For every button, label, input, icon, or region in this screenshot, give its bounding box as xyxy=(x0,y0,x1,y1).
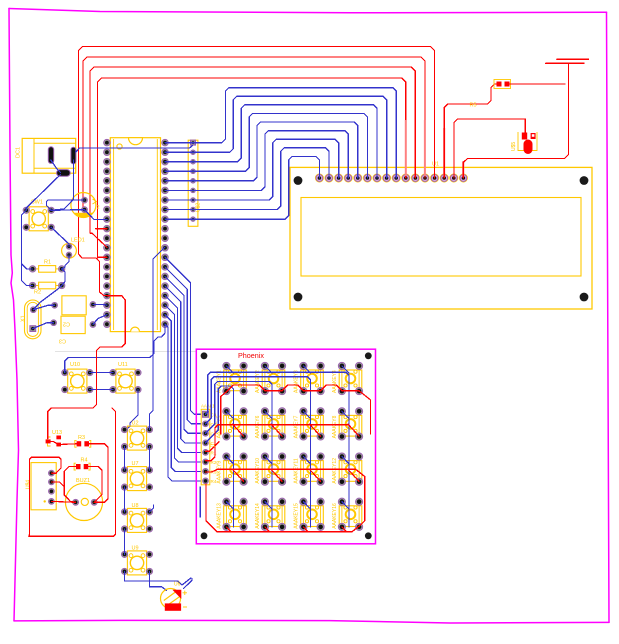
LCD mounting hole 3 xyxy=(294,293,303,302)
label U1 xyxy=(432,162,439,168)
keypad button AAAKEY2 xyxy=(255,362,286,394)
wire DC1 pin1 to pin3 xyxy=(51,160,61,173)
keypad connector pads C4-R4 xyxy=(201,404,217,485)
svg-text:U$2: U$2 xyxy=(196,203,202,212)
resistor R2 xyxy=(29,282,65,295)
resistor R4 (SMD) xyxy=(74,458,90,471)
keypad mounting hole 3 xyxy=(201,532,208,539)
keypad button AAAKEY16 xyxy=(332,498,363,530)
wire branch to R1 pad1 xyxy=(22,264,33,269)
keypad red row4 net xyxy=(206,484,361,532)
LCD mounting hole 1 xyxy=(294,176,303,185)
red wire R4 to BUZ1 pin1 xyxy=(64,467,76,503)
IC U13 (SOT-23) xyxy=(46,430,62,446)
component U$3 (TO-92) xyxy=(71,193,100,218)
push button SW1 xyxy=(23,200,54,231)
red wire R4 to BUZ1 pin2 xyxy=(88,467,102,503)
transistor U$5 xyxy=(511,132,537,154)
svg-text:AAAKEY8: AAAKEY8 xyxy=(332,415,338,438)
LED U6 xyxy=(161,582,188,611)
svg-text:DC1: DC1 xyxy=(16,147,22,158)
wire LCD pin15 to U$5 xyxy=(454,119,525,178)
wire SW1 to U$3 pin1 xyxy=(47,200,85,210)
svg-text:U7: U7 xyxy=(132,461,139,467)
wire button column left pads xyxy=(124,447,126,555)
svg-text:LED1: LED1 xyxy=(71,238,85,244)
wide power traces into LCD pins 10,12,14,16 xyxy=(406,120,464,176)
svg-text:R1: R1 xyxy=(44,260,51,266)
push button U11 xyxy=(110,362,141,393)
keypad misc labels xyxy=(210,443,216,448)
blue bundle MCU pins 33-40 to keypad connector xyxy=(165,257,201,481)
red wire U$4 pin2 join xyxy=(51,482,64,487)
wire LED U6 diagonal stub xyxy=(184,579,193,589)
svg-text:C3: C3 xyxy=(59,338,66,344)
wire LED1 to R1 pad2 xyxy=(62,255,69,269)
svg-text:R2: R2 xyxy=(34,290,41,296)
red bus wires MCU area to LCD pins 10-13 xyxy=(79,47,435,259)
svg-text:U10: U10 xyxy=(70,362,80,368)
svg-text:AAAKEY3: AAAKEY3 xyxy=(294,370,300,393)
capacitor C2 xyxy=(52,296,96,327)
LCD pin header pads 1-16 xyxy=(315,174,467,182)
keypad button AAAKEY8 xyxy=(332,408,363,440)
keypad red row3 net xyxy=(206,469,365,524)
pin header U$2 outline xyxy=(188,140,201,226)
MCU pads pins 21-40 (right column) xyxy=(162,139,169,327)
wire R1 pad2 to R2 pad2 xyxy=(62,269,65,286)
svg-text:AAAKEY4: AAAKEY4 xyxy=(332,370,338,393)
svg-text:R3: R3 xyxy=(78,435,85,441)
DC power jack DC1 xyxy=(22,138,76,176)
label Phoenix xyxy=(238,351,264,360)
svg-text:U1: U1 xyxy=(432,162,439,168)
keypad button AAAKEY12 xyxy=(332,453,363,485)
svg-text:X1: X1 xyxy=(21,315,27,322)
svg-text:AAAKEY13: AAAKEY13 xyxy=(217,503,223,529)
pin header U$2 pads 1-9 xyxy=(191,140,196,221)
keypad red R1 riser xyxy=(206,442,220,452)
svg-text:SW1: SW1 xyxy=(31,200,43,206)
wire SW1 pad3 down left side xyxy=(22,210,33,285)
keypad button AAAKEY4 xyxy=(332,362,363,394)
keypad red jog diagonals xyxy=(226,424,359,531)
wire U10 to MCU pin40 xyxy=(65,324,165,372)
red wire R3 to BUZ1 pin2 xyxy=(88,444,108,503)
svg-text:R1: R1 xyxy=(211,451,217,456)
keypad button AAAKEY9 xyxy=(217,453,248,485)
resistor R3 (SMD) xyxy=(75,435,91,447)
keypad button AAAKEY3 xyxy=(294,362,325,394)
keypad blue stubs to key pads xyxy=(226,366,349,509)
keypad button AAAKEY11 xyxy=(294,453,325,485)
wire U8 stub xyxy=(150,505,154,512)
wire DC1 pin2 to header pin1 (under MCU) xyxy=(76,146,193,153)
wire LCD pin14 to R5 xyxy=(444,84,498,178)
keypad board outline (magenta) xyxy=(196,349,375,544)
LCD mounting hole 2 xyxy=(580,176,589,185)
keypad red row2 net xyxy=(206,425,349,461)
push button U2 xyxy=(121,421,152,451)
svg-text:U11: U11 xyxy=(118,362,128,368)
svg-text:U$4: U$4 xyxy=(26,480,32,489)
wire DC1 pin2 down to SW1 xyxy=(51,160,73,210)
wire U9 to LED U6 (a) xyxy=(125,571,191,585)
keypad button AAAKEY5 xyxy=(217,408,248,440)
svg-text:U8: U8 xyxy=(132,503,139,509)
wire C3 pad2 to MCU pin18 xyxy=(93,315,107,325)
wire R2 pad2 to X1 pin1 xyxy=(33,286,61,310)
red wire U13 to R3 xyxy=(49,441,77,444)
svg-text:BUZ1: BUZ1 xyxy=(76,478,90,484)
keypad button AAAKEY10 xyxy=(255,453,286,485)
keypad mounting hole 4 xyxy=(365,532,372,539)
wire C2 pad2 to MCU pin17 xyxy=(93,304,107,307)
push button U8 xyxy=(121,503,152,532)
svg-text:AAAKEY16: AAAKEY16 xyxy=(332,503,338,529)
wire SW1 pad4 to LED1 xyxy=(51,227,69,246)
svg-text:U6: U6 xyxy=(174,582,181,588)
label DC1 xyxy=(16,147,22,158)
resistor R5 (SMD) xyxy=(470,80,511,109)
wire R5 to antenna net xyxy=(507,83,565,85)
svg-text:AAAKEY7: AAAKEY7 xyxy=(294,415,300,438)
keypad button AAAKEY6 xyxy=(255,408,286,440)
push button U10 xyxy=(62,362,93,393)
wire X1 pin2 to C3 pad1 xyxy=(33,323,54,329)
svg-text:U2: U2 xyxy=(132,421,139,427)
keypad mounting hole 2 xyxy=(365,352,372,359)
resistor R1 xyxy=(29,260,65,273)
wire U9 to LED U6 (b) xyxy=(150,571,167,590)
svg-text:C1: C1 xyxy=(210,443,216,448)
svg-text:AAAKEY15: AAAKEY15 xyxy=(294,503,300,529)
svg-text:R5: R5 xyxy=(470,103,477,109)
svg-text:2: 2 xyxy=(97,205,100,211)
LCD mounting hole 4 xyxy=(580,293,589,302)
capacitor C3 xyxy=(51,316,96,343)
MCU pads pins 1-20 (left column) xyxy=(104,139,111,327)
svg-text:R4: R4 xyxy=(81,458,88,464)
svg-text:AAAKEY11: AAAKEY11 xyxy=(294,458,300,483)
connector U$4 xyxy=(26,463,57,510)
blue bus wires MCU through header U$2 to LCD pins 1-9 xyxy=(165,88,396,220)
svg-text:AAAKEY9: AAAKEY9 xyxy=(217,461,223,484)
crystal X1 xyxy=(21,300,42,339)
wire X1 pin1 to C2 pad1 xyxy=(33,305,54,309)
wire button column right pads xyxy=(149,447,151,471)
wire antenna to LCD pin16 xyxy=(463,159,564,179)
keypad button AAAKEY13 xyxy=(217,498,248,530)
wire U10-U11 top pads xyxy=(90,372,113,374)
red wire U$4 pin4 to BUZ1 pin1 xyxy=(51,500,75,503)
keypad red row1 net xyxy=(221,385,371,434)
svg-text:U13: U13 xyxy=(52,430,62,436)
wire DC1 pin3 to SW1 xyxy=(26,175,60,211)
keypad button AAAKEY15 xyxy=(294,498,325,530)
red wire to MCU pin 11 xyxy=(90,233,107,247)
LCD display module U1 outline xyxy=(290,167,592,309)
svg-text:C2: C2 xyxy=(63,321,70,327)
blue stub below keypad connector xyxy=(199,487,201,517)
push button U9 xyxy=(121,546,152,575)
svg-text:AAAKB: AAAKB xyxy=(201,404,216,409)
faint guide line xyxy=(55,351,196,353)
red wire stub MCU pin 16 to left xyxy=(79,254,107,296)
keypad button AAAKEY7 xyxy=(294,408,325,440)
red wire to MCU pin 12 xyxy=(98,256,107,258)
LED1 xyxy=(62,238,85,259)
svg-text:AAAKEY14: AAAKEY14 xyxy=(255,503,261,529)
wire U$3 to MCU pin9 xyxy=(85,210,107,220)
red wire stub MCU pin 10 xyxy=(96,228,107,230)
wire U11 to U2 xyxy=(125,390,139,431)
svg-text:AAAKEY12: AAAKEY12 xyxy=(332,458,338,484)
keypad blue column wires C1-C4 xyxy=(206,372,350,527)
buzzer BUZ1 xyxy=(65,478,102,521)
IC U$1 MCU DIP-40 package outline xyxy=(110,138,160,332)
keypad button AAAKEY1 xyxy=(217,362,248,394)
push button U7 xyxy=(121,461,152,491)
red wire branch to BUZ1 box xyxy=(29,408,116,536)
svg-text:AAAKEY10: AAAKEY10 xyxy=(255,458,261,484)
keypad button AAAKEY14 xyxy=(255,498,286,530)
red wire MCU pin16 to U13 xyxy=(48,296,126,439)
svg-text:AAAKEY6: AAAKEY6 xyxy=(255,415,261,438)
keypad mounting hole 1 xyxy=(201,352,208,359)
svg-text:Phoenix: Phoenix xyxy=(238,351,264,360)
wire U2 feed from MCU xyxy=(150,247,166,430)
antenna / test point xyxy=(546,59,589,158)
wire U10-U11 bottom pads xyxy=(90,389,113,391)
wire SW1 to U$3 pin2 xyxy=(51,209,84,212)
svg-text:U$5: U$5 xyxy=(511,142,517,151)
svg-text:U9: U9 xyxy=(132,546,139,552)
